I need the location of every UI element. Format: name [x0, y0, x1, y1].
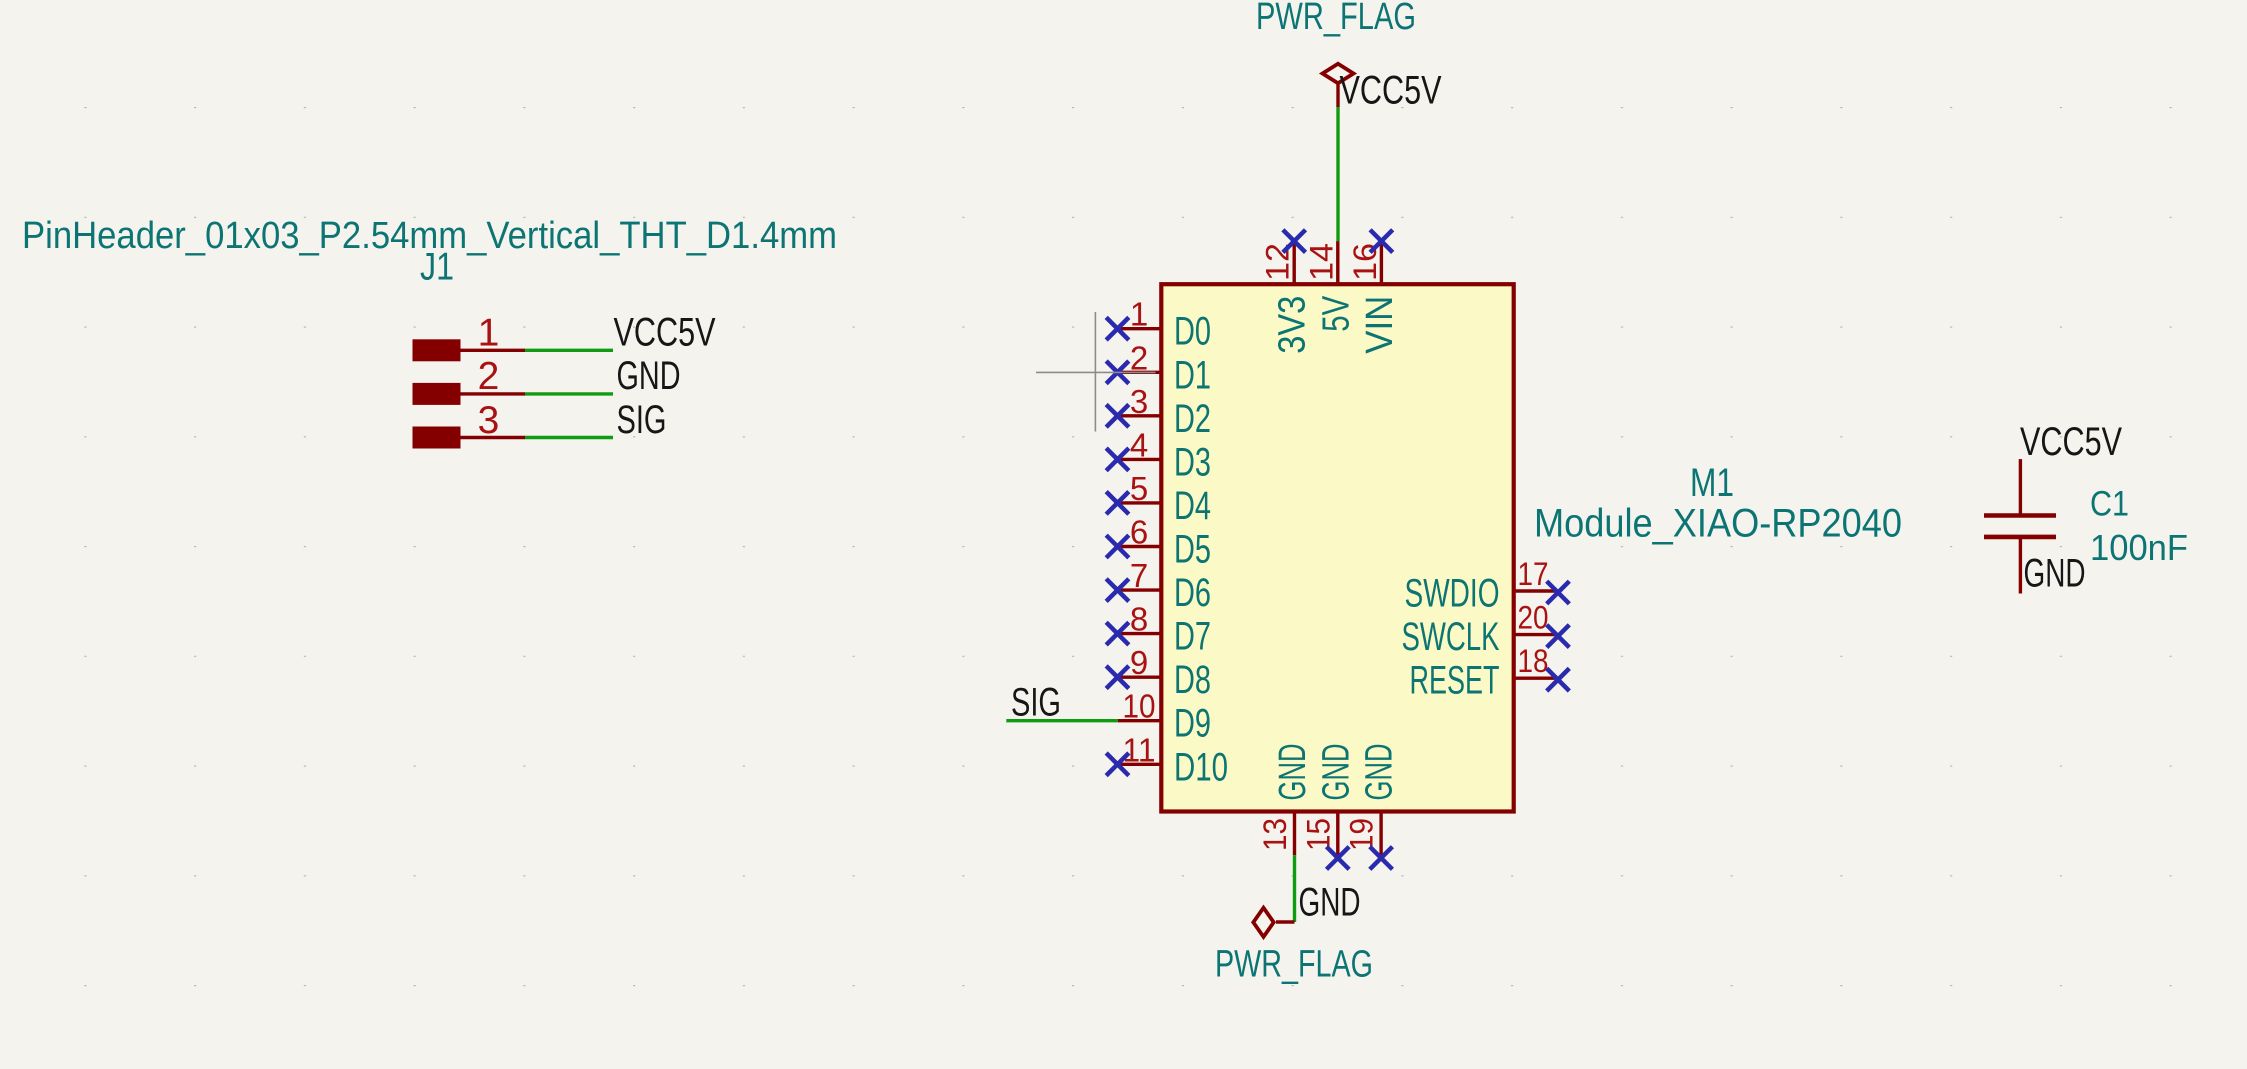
svg-text:GND: GND	[1315, 744, 1357, 801]
wire pin 13 to PWR_FLAG (GND net)	[1293, 855, 1296, 922]
module M1 pin 15 (GND)	[1336, 812, 1339, 856]
module M1 pin 1 (D0)	[1118, 327, 1162, 330]
svg-text:SIG: SIG	[1011, 681, 1061, 725]
svg-text:16: 16	[1347, 243, 1383, 281]
svg-text:12: 12	[1260, 243, 1296, 281]
power flag PWR_FLAG (bottom) symbol	[1276, 920, 1295, 923]
svg-text:GND: GND	[2024, 552, 2086, 596]
svg-text:D9: D9	[1174, 702, 1211, 746]
svg-text:6: 6	[1130, 514, 1148, 551]
svg-text:18: 18	[1518, 643, 1549, 679]
svg-text:GND: GND	[1299, 881, 1361, 925]
no-connect pin 7	[1106, 579, 1129, 602]
svg-text:D8: D8	[1174, 658, 1211, 702]
svg-text:1: 1	[1130, 296, 1148, 333]
module M1 pin 2 (D1)	[1118, 371, 1162, 374]
connector J1 pad 3	[413, 427, 461, 449]
no-connect pin 4	[1106, 448, 1129, 471]
connector J1 pin 2	[461, 392, 526, 395]
svg-text:3: 3	[1130, 383, 1148, 420]
capacitor C1 bottom plate	[1984, 535, 2056, 540]
connector J1 pad 1	[413, 339, 461, 361]
no-connect pin 17	[1547, 581, 1570, 604]
svg-text:VCC5V: VCC5V	[1340, 69, 1442, 113]
no-connect pin 6	[1106, 535, 1129, 558]
svg-text:GND: GND	[1272, 744, 1314, 801]
module M1 pin 9 (D8)	[1118, 676, 1162, 679]
connector J1 pin 3	[461, 436, 526, 439]
no-connect pin 8	[1106, 622, 1129, 645]
svg-text:M1: M1	[1690, 461, 1734, 505]
module M1 body	[1161, 284, 1513, 811]
capacitor C1 bottom lead	[2019, 539, 2022, 594]
svg-text:15: 15	[1300, 818, 1336, 851]
svg-text:D7: D7	[1174, 615, 1211, 659]
wire PWR_FLAG to pin 14 (VCC5V net)	[1336, 107, 1339, 241]
module M1 pin 12 (3V3)	[1292, 241, 1295, 284]
svg-text:VCC5V: VCC5V	[614, 311, 716, 355]
svg-text:D1: D1	[1174, 353, 1211, 397]
svg-text:D3: D3	[1174, 440, 1211, 484]
svg-text:2: 2	[478, 355, 500, 398]
svg-text:9: 9	[1130, 644, 1148, 681]
power flag PWR_FLAG (top) symbol	[1323, 64, 1354, 83]
module M1 pin 14 (5V)	[1336, 241, 1339, 284]
svg-text:1: 1	[478, 312, 500, 355]
module M1 pin 17 (SWDIO)	[1514, 589, 1558, 592]
svg-text:VIN: VIN	[1359, 296, 1401, 354]
no-connect pin 9	[1106, 666, 1129, 689]
svg-text:4: 4	[1130, 426, 1148, 463]
no-connect pin 5	[1106, 492, 1129, 515]
svg-text:3: 3	[478, 399, 500, 442]
module M1 pin 13 (GND)	[1293, 812, 1296, 856]
svg-text:100nF: 100nF	[2090, 527, 2188, 568]
svg-text:11: 11	[1123, 731, 1156, 768]
wire J1 pin3 to SIG	[525, 436, 613, 439]
module M1 pin 4 (D3)	[1118, 458, 1162, 461]
no-connect pin 15	[1327, 847, 1350, 870]
module M1 pin 16 (VIN)	[1380, 241, 1383, 284]
svg-text:PWR_FLAG: PWR_FLAG	[1256, 0, 1416, 38]
cursor crosshair	[1036, 371, 1156, 373]
svg-text:5V: 5V	[1315, 295, 1357, 332]
no-connect pin 16	[1370, 230, 1393, 253]
svg-text:20: 20	[1518, 600, 1549, 636]
svg-text:GND: GND	[617, 354, 681, 398]
svg-text:8: 8	[1130, 601, 1148, 638]
svg-text:3V3: 3V3	[1272, 296, 1314, 354]
module M1 pin 18 (RESET)	[1514, 677, 1558, 680]
svg-text:7: 7	[1130, 557, 1148, 594]
svg-text:PWR_FLAG: PWR_FLAG	[1215, 944, 1373, 986]
no-connect pin 20	[1547, 625, 1570, 648]
no-connect pin 2	[1106, 361, 1129, 384]
module M1 pin 10 (D9)	[1118, 719, 1162, 722]
svg-text:RESET: RESET	[1410, 659, 1500, 703]
svg-text:14: 14	[1303, 243, 1339, 281]
module M1 pin 3 (D2)	[1118, 414, 1162, 417]
module M1 pin 7 (D6)	[1118, 588, 1162, 591]
svg-text:SIG: SIG	[617, 398, 667, 442]
module M1 pin 8 (D7)	[1118, 632, 1162, 635]
svg-text:17: 17	[1518, 556, 1549, 592]
connector J1 pin 1	[461, 349, 526, 352]
module M1 pin 5 (D4)	[1118, 501, 1162, 504]
svg-text:D10: D10	[1174, 745, 1228, 789]
wire J1 pin1 to VCC5V	[525, 349, 613, 352]
no-connect pin 19	[1370, 847, 1393, 870]
wire J1 pin2 to GND	[525, 392, 613, 395]
svg-text:D4: D4	[1174, 484, 1211, 528]
no-connect pin 18	[1547, 668, 1570, 691]
no-connect pin 3	[1106, 405, 1129, 428]
no-connect pin 11	[1106, 753, 1129, 776]
svg-text:10: 10	[1123, 688, 1156, 725]
svg-text:GND: GND	[1359, 744, 1401, 801]
svg-text:19: 19	[1344, 818, 1380, 851]
svg-text:5: 5	[1130, 470, 1148, 507]
module M1 pin 6 (D5)	[1118, 545, 1162, 548]
svg-text:SWDIO: SWDIO	[1405, 572, 1500, 616]
connector J1 pad 2	[413, 383, 461, 405]
svg-text:C1: C1	[2090, 485, 2129, 524]
svg-text:J1: J1	[420, 246, 454, 289]
no-connect pin 12	[1283, 230, 1306, 253]
svg-text:VCC5V: VCC5V	[2020, 420, 2122, 464]
svg-text:D0: D0	[1174, 310, 1211, 354]
module M1 pin 20 (SWCLK)	[1514, 633, 1558, 636]
capacitor C1 top lead	[2019, 459, 2022, 513]
no-connect pin 1	[1106, 317, 1129, 340]
svg-text:SWCLK: SWCLK	[1402, 615, 1500, 659]
module M1 pin 11 (D10)	[1118, 763, 1162, 766]
capacitor C1 top plate	[1984, 513, 2056, 518]
svg-text:D5: D5	[1174, 528, 1211, 572]
wire SIG to module pin 10 (D9)	[1006, 719, 1117, 722]
svg-text:D6: D6	[1174, 571, 1211, 615]
svg-text:2: 2	[1130, 339, 1148, 376]
svg-text:13: 13	[1257, 818, 1293, 851]
module M1 pin 19 (GND)	[1379, 812, 1382, 856]
svg-text:D2: D2	[1174, 397, 1211, 441]
svg-text:Module_XIAO-RP2040: Module_XIAO-RP2040	[1534, 502, 1902, 546]
